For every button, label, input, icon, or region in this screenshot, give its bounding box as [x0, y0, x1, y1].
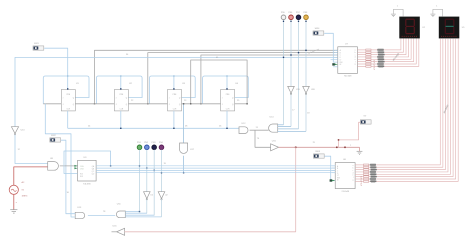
- wire SW3 to U6 LT: [325, 156, 336, 180]
- label R4 value: [377, 56, 384, 59]
- svg-text:SW3: SW3: [315, 151, 321, 153]
- label R2 value: [378, 51, 385, 54]
- svg-text:g: g: [355, 64, 356, 66]
- inverter U20 on LED stem 4: [303, 86, 316, 94]
- wire segment a display1: [357, 38, 401, 50]
- wire segment d display2: [355, 38, 448, 172]
- label net 12: [18, 149, 21, 151]
- svg-text:J: J: [169, 104, 170, 106]
- pin U7 in 4: [335, 56, 338, 58]
- svg-text:AC: AC: [22, 181, 25, 184]
- svg-text:>: >: [116, 97, 117, 100]
- wire Qd bus (blue, big left loop): [15, 57, 338, 126]
- wire Qa bus (grey): [95, 50, 338, 104]
- node PN2 bus tap: [146, 167, 147, 168]
- node FF1 top junction: [67, 88, 68, 89]
- wire segment g display1: [357, 38, 416, 64]
- inverter on PN4 stem: [158, 192, 168, 200]
- node CLR rail junction 1: [120, 128, 121, 129]
- wire SW2 to U13: [61, 140, 75, 214]
- wire data bus B: [96, 167, 335, 169]
- resistor R9: [364, 164, 369, 166]
- wire PN4 stem lower: [160, 199, 162, 217]
- AND gate U11 (4-input, faces left): [116, 204, 125, 218]
- wire rail to ground: [359, 147, 361, 151]
- wire U14 in2: [278, 125, 291, 127]
- wire data bus A: [96, 165, 335, 167]
- wire PN4 stem upper: [160, 150, 162, 192]
- wire Qc bus (grey): [201, 55, 338, 104]
- AND gate U13: [75, 207, 85, 219]
- node LED PN5 junction: [283, 21, 284, 22]
- wire CLR rail: [68, 127, 239, 129]
- wire chain FF3-FF4: [182, 103, 221, 105]
- pin U6 in 4: [332, 172, 335, 174]
- svg-text:R02: R02: [80, 176, 83, 178]
- node FF4 loop-top junction: [226, 75, 227, 76]
- label slanted near SW4: [309, 49, 320, 54]
- wire U11 in3: [125, 214, 154, 216]
- label R3 value: [378, 53, 385, 56]
- label net 41: [216, 57, 219, 59]
- wire 5V red rail: [279, 146, 360, 148]
- svg-text:470 470 470: 470 470 470: [361, 176, 363, 186]
- wire U13 out to U11: [88, 214, 115, 216]
- wire K-feedback loop FF4: [203, 76, 249, 104]
- svg-text:SW2: SW2: [51, 135, 57, 137]
- resistor R5: [366, 58, 371, 60]
- resistor R12: [364, 171, 369, 173]
- AND gate U17 (pointing down): [180, 143, 195, 153]
- resistor R10: [364, 166, 369, 168]
- label R13 value: [370, 173, 376, 176]
- label net 16: [67, 192, 70, 194]
- wire U14 in3: [278, 128, 299, 130]
- wire FF3 PRE pin: [173, 76, 175, 90]
- pin U7 in 1: [335, 49, 338, 51]
- wire FF2 CLR pin: [120, 111, 122, 128]
- label rotated (display1 bundle): [393, 52, 401, 61]
- pin arrow CKA: [74, 165, 77, 167]
- wire segment a display2: [355, 38, 440, 164]
- ground symbol (AC): [10, 210, 17, 213]
- AND gate U12: [239, 123, 248, 133]
- wire AC to U8 in2: [14, 167, 48, 185]
- label net 17: [292, 110, 295, 112]
- pin U6 in 3: [332, 169, 335, 171]
- counter chip U9: [78, 157, 97, 186]
- wire U9 reset loop: [64, 151, 111, 174]
- node LED PN7 junction: [298, 21, 299, 22]
- label R11 value: [370, 168, 377, 171]
- resistor R11: [364, 169, 369, 171]
- resistor R1: [366, 49, 371, 51]
- inverter U16: [113, 226, 125, 236]
- label net a: [16, 202, 18, 204]
- node FF3 loop-top junction: [173, 75, 174, 76]
- wire segment c display2: [355, 38, 445, 169]
- wire segment b display2: [355, 38, 443, 167]
- label net 76: [257, 138, 260, 140]
- label R7 value: [377, 63, 384, 66]
- LED indicator PN7: [296, 12, 301, 19]
- wire U12 output: [250, 129, 269, 131]
- wire chain into FF1 J: [43, 103, 61, 105]
- label R5 value: [378, 58, 385, 61]
- wire K-feedback loop FF3: [150, 76, 196, 104]
- pin U7 in 3: [335, 54, 338, 56]
- node grey loop right tap: [246, 103, 247, 104]
- wire U14 in4: [278, 130, 306, 132]
- wire AC to ground: [13, 194, 15, 209]
- label R12 value: [370, 171, 376, 174]
- node Qc tap: [200, 103, 201, 104]
- wire SW6 to rail: [339, 122, 361, 147]
- node U11 in1 junction: [139, 211, 140, 212]
- node PN3 bus tap: [153, 170, 154, 171]
- svg-text:>: >: [222, 97, 223, 100]
- wire K-feedback loop FF1: [43, 76, 89, 104]
- wire SW4 to U7 RBI: [324, 33, 338, 62]
- node Qa tap: [94, 103, 95, 104]
- svg-text:>: >: [63, 97, 64, 100]
- ground symbol DS1: [391, 14, 396, 17]
- node LED PN6 junction: [290, 21, 291, 22]
- label net 78: [103, 211, 106, 213]
- 7-segment display DS1: [399, 17, 426, 39]
- wire segment f display2: [355, 38, 453, 176]
- label DS2 top: [436, 6, 438, 8]
- JK flip-flop U3: [168, 83, 186, 111]
- wire segment e display2: [355, 38, 450, 174]
- svg-text:74LS48: 74LS48: [344, 76, 352, 78]
- AC source V1: [9, 181, 28, 197]
- toggle switch SW6 (5V): [360, 116, 371, 125]
- pin U6 in 2: [332, 167, 335, 169]
- wire U14 in1: [278, 124, 284, 126]
- label net a (rail): [350, 145, 352, 147]
- resistor R4: [366, 56, 371, 58]
- wire Qb bus (grey): [148, 53, 338, 104]
- node rail junction A: [295, 147, 297, 149]
- wire data bus D: [96, 172, 335, 174]
- wire U11 in1: [125, 211, 139, 213]
- svg-text:J: J: [63, 104, 64, 106]
- wire chain tap to U17: [183, 104, 185, 143]
- svg-text:470 470 470: 470 470 470: [374, 60, 376, 70]
- label R1 value: [377, 49, 384, 52]
- pin U7 in 2: [335, 52, 338, 54]
- node LED stem 2 bus tap: [290, 54, 291, 55]
- wire FF1 CLR pin: [67, 111, 69, 128]
- node LED stem 1 bus tap: [283, 57, 284, 58]
- LED indicator PN1: [137, 142, 142, 150]
- pin U6 in 1: [332, 165, 335, 167]
- resistor R16: [364, 180, 369, 182]
- wire data bus C: [96, 169, 335, 171]
- inverter U10: [11, 127, 25, 135]
- label DS1 top: [397, 6, 399, 8]
- svg-text:J: J: [222, 104, 223, 106]
- label R16 value: [370, 180, 376, 183]
- label R9 value: [370, 164, 376, 167]
- wire FF2 PRE pin: [120, 76, 122, 90]
- wire PN2 stem lower: [146, 199, 148, 213]
- wire U16 output stub: [112, 231, 117, 233]
- resistor R7: [366, 63, 371, 65]
- wire U8 output to U9: [60, 165, 78, 167]
- AND gate U8: [48, 158, 59, 170]
- wire PN1 stem: [139, 150, 141, 212]
- node FF4 top junction: [226, 88, 227, 89]
- ground symbol (rail): [357, 151, 363, 154]
- wire U11 in4: [125, 216, 161, 218]
- node LED stem 4 bus tap: [305, 50, 306, 51]
- wire segment b display1: [357, 38, 403, 52]
- svg-text:g: g: [352, 179, 353, 181]
- node grey loop left tap: [190, 103, 191, 104]
- label R15 value: [370, 178, 376, 181]
- ground symbol DS2: [430, 14, 435, 17]
- wire U10 out to U8 in1: [15, 135, 48, 164]
- node CLR rail junction 3: [226, 128, 227, 129]
- resistor R13: [364, 173, 369, 175]
- label rotated (display2 bundle): [444, 104, 450, 114]
- wire U11 in2: [125, 212, 147, 214]
- node PN4 bus tap: [161, 172, 162, 173]
- decoder chip U6 (74LS48): [335, 159, 355, 193]
- wire K-feedback loop FF2: [96, 76, 142, 104]
- JK flip-flop U1: [61, 83, 79, 111]
- node U17 output tap: [183, 172, 184, 173]
- label net 24: [88, 125, 91, 127]
- node CLR rail junction 2: [173, 128, 174, 129]
- wire SW1 to FF1 PRE: [44, 48, 67, 89]
- svg-text:1MEG: 1MEG: [22, 195, 28, 197]
- node U17 input tap: [183, 103, 184, 104]
- node LED PN8 junction: [305, 21, 306, 22]
- resistor R6: [366, 61, 371, 63]
- svg-text:74LS90: 74LS90: [83, 184, 91, 186]
- wire chain FF2-FF3: [128, 103, 167, 105]
- 7-segment display DS2: [439, 17, 466, 39]
- label net 74: [256, 127, 259, 129]
- wire U16 input from rail: [125, 147, 296, 232]
- label net 25: [237, 100, 240, 102]
- LED indicator PN8: [303, 12, 308, 19]
- label net 18: [307, 113, 310, 115]
- wire segment h display2: [355, 38, 458, 181]
- node FF2 loop-top junction: [120, 75, 121, 76]
- wire chain FF1-FF2: [75, 103, 114, 105]
- label R8 value: [378, 65, 385, 68]
- buffer U15: [271, 141, 279, 151]
- LED indicator PN4: [159, 142, 164, 150]
- node FF2 top junction: [120, 88, 121, 89]
- label net 19: [164, 163, 167, 165]
- wire segment e display1: [357, 38, 411, 59]
- toggle switch SW2: [50, 135, 61, 142]
- LED indicator PN2: [144, 142, 149, 150]
- label net 28: [185, 125, 188, 127]
- node FF1 loop-top junction: [67, 75, 68, 76]
- resistor R15: [364, 178, 369, 180]
- label R14 value: [370, 175, 377, 178]
- wire LED PN5 stem: [283, 20, 285, 125]
- node FF3 top junction: [173, 88, 174, 89]
- svg-text:>: >: [169, 97, 170, 100]
- wire FF4 PRE pin: [226, 76, 228, 90]
- pin arrow CKB: [74, 167, 77, 169]
- svg-text:SW1: SW1: [34, 43, 40, 45]
- wire segment d display1: [357, 38, 408, 57]
- wire segment h display1: [357, 38, 418, 66]
- LED indicator PN3: [152, 142, 157, 150]
- svg-text:74LS48: 74LS48: [341, 191, 349, 193]
- JK flip-flop U4: [221, 83, 239, 111]
- wire LED PN8 stem: [305, 20, 307, 132]
- toggle switch SW3: [313, 151, 324, 158]
- decoder chip U7 (74LS48): [338, 44, 358, 78]
- resistor R3: [366, 54, 371, 56]
- ground bracket DS2: [433, 9, 443, 16]
- resistor R14: [364, 176, 369, 178]
- AND gate U14: [269, 117, 278, 133]
- label net 78 (rail): [313, 142, 316, 144]
- inverter U19 on LED stem 2: [288, 86, 301, 94]
- node SW6 wire corner: [338, 139, 340, 141]
- resistor R2: [366, 51, 371, 53]
- wire chain FF4 Q out: [235, 103, 248, 105]
- label net 34: [126, 54, 129, 56]
- node Qb tap: [147, 103, 148, 104]
- wire FF3 CLR pin: [173, 111, 175, 128]
- LED indicator PN5: [281, 12, 286, 19]
- label rotated (resistor col 1): [374, 60, 376, 70]
- node LED stem 3 bus tap: [298, 52, 299, 53]
- svg-text:SW4: SW4: [315, 28, 321, 30]
- node rail junction B: [336, 147, 338, 149]
- wire U17 output: [183, 156, 185, 173]
- node U9 loop tap: [110, 165, 111, 166]
- JK flip-flop U2: [114, 83, 132, 111]
- wire FF4 CLR pin: [226, 111, 228, 128]
- wire segment f display1: [357, 38, 413, 61]
- LED indicator PN6: [288, 12, 293, 19]
- toggle switch SW1: [33, 43, 44, 50]
- wire grey loop over FF4: [191, 60, 247, 104]
- wire U12/U14 node to U15: [255, 130, 271, 147]
- label R10 value: [370, 166, 376, 169]
- wire PN3 stem: [153, 150, 155, 216]
- toggle switch SW4: [313, 28, 324, 35]
- wire LED PN6 stem: [290, 20, 292, 127]
- resistor R8: [366, 65, 371, 67]
- ground bracket DS1: [393, 9, 403, 16]
- pin arrow U7 LT: [331, 60, 338, 67]
- svg-text:J: J: [116, 104, 117, 106]
- wire blue corner to U13 in2: [45, 104, 75, 217]
- wire LED PN7 stem: [298, 20, 300, 129]
- label R6 value: [378, 60, 385, 63]
- wire segment c display1: [357, 38, 406, 54]
- wire PN2 stem upper: [146, 150, 148, 192]
- label net 22: [131, 100, 134, 102]
- inverter on PN2 stem: [144, 192, 154, 200]
- wire segment g display2: [355, 38, 456, 179]
- node PN1 bus tap: [139, 165, 140, 166]
- label net 23: [184, 100, 187, 102]
- node rail junction C: [344, 147, 346, 149]
- pin arrow U6 LT: [330, 179, 336, 181]
- label rotated (resistor col 2): [361, 176, 363, 186]
- label net 26: [219, 125, 222, 127]
